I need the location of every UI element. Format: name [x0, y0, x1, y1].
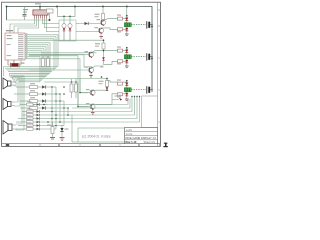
wire matrix vertical buses [52, 87, 72, 142]
frame right band tick marks [158, 9, 161, 11]
resistor matrix row 3 [30, 97, 35, 98]
capacitor C1 [23, 14, 27, 16]
LED DB3 red bottom [125, 93, 128, 96]
ground stage 2 output [125, 65, 129, 67]
transistor Q12 [95, 27, 104, 34]
diode matrix row 6 [37, 114, 40, 117]
crystal Q2 label [21, 63, 25, 64]
wire nested horizontals under IC going left [4, 67, 59, 82]
LED B in box [69, 16, 71, 23]
resistor matrix row 4 [30, 104, 35, 105]
frame inner bottom line [2, 143, 161, 145]
output column stage 3 [126, 81, 128, 99]
LED DB1 red bottom [125, 28, 128, 31]
wire C1 to rail [24, 7, 26, 21]
frame outer border [2, 2, 161, 146]
base wires stage 3 [78, 93, 90, 107]
crystal Q1 box [47, 9, 54, 13]
base wires stage 1 [76, 24, 102, 32]
wire row 1 left [16, 86, 30, 88]
resistor R12 [102, 43, 105, 49]
collector wires stage 2 [93, 48, 127, 68]
resistor R13 [106, 81, 109, 87]
LED A in box [63, 16, 65, 23]
series resistor RA3 [118, 82, 123, 85]
ground under stage2 chain [100, 66, 103, 68]
resistor matrix row 9 [27, 122, 32, 123]
node row 4 [63, 107, 65, 109]
series resistor RB1 [118, 28, 123, 31]
ground stage 1 output [125, 33, 129, 35]
IC1 name labels [6, 30, 13, 31]
node junction dots on VCC rail [6, 6, 153, 60]
IC1 bottom pins [7, 60, 9, 65]
diode matrix row 1 [42, 85, 45, 88]
diode matrix row 5 [37, 110, 40, 113]
LED DA3 red top [125, 83, 128, 86]
LED mid chain stage3 [106, 87, 109, 90]
diode base stage1 [85, 22, 88, 25]
green indicator G2 [124, 55, 131, 59]
extra matrix junction dots [51, 86, 81, 109]
IC1 pin numbers [26, 33, 28, 58]
frame bottom band tick marks [39, 144, 41, 147]
resistor matrix row 2 [30, 90, 35, 91]
node row 3 [59, 100, 61, 102]
LED DB2 red bottom [125, 60, 128, 63]
diode matrix row 10 [37, 128, 40, 131]
wire cluster top rail y16.4 [58, 7, 76, 17]
series resistor RB2 [118, 60, 123, 63]
resistor matrix row 6 [27, 112, 32, 113]
LED DA2 red top [125, 50, 128, 53]
wire staircase into box above title block [48, 97, 140, 143]
wire dashed green to cap stage 1 [131, 24, 146, 26]
svg-text:Sheet 1/1: Sheet 1/1 [144, 140, 156, 144]
svg-text:DICE GAME DISPLAY 1.0: DICE GAME DISPLAY 1.0 [126, 136, 157, 140]
wire row 2 left [14, 93, 30, 95]
diode matrix row 4 [42, 106, 45, 109]
node row 2 [55, 93, 57, 95]
IC IC1 [5, 33, 25, 60]
LED DA1 red top [125, 18, 128, 21]
transistor Q11 [97, 19, 106, 26]
wire bus to SV1 [39, 7, 41, 11]
IC1 pin name column [18, 34, 24, 59]
capacitor CP1 [146, 21, 148, 28]
note box [78, 128, 126, 142]
output column stage 1 [126, 7, 128, 35]
diode matrix row 3 [42, 99, 45, 102]
wire row 10 [16, 128, 27, 130]
wire row 8 [16, 121, 27, 123]
diode matrix row 9 [37, 124, 40, 127]
driver stage 3 feed wire [17, 79, 107, 81]
driver stage 1 feed wire [102, 7, 104, 14]
wire row 9 [18, 125, 27, 127]
resistor R30 vertical [47, 122, 55, 139]
resistor matrix row 4b [27, 101, 32, 102]
capacitor CP2 [146, 53, 148, 60]
wire row 4 right [45, 107, 68, 109]
svg-text:(c) 2004 D. Kotze: (c) 2004 D. Kotze [82, 135, 111, 139]
wire row 7 [18, 118, 27, 120]
diode D15 vertical [60, 125, 68, 137]
transistor QD under stage3 unit [119, 98, 122, 101]
diode matrix row 4b [37, 103, 40, 106]
wire pin fan from IC to right (staggered elbows down) [29, 35, 58, 82]
node row 1 [51, 86, 53, 88]
resistor matrix row 5 [27, 108, 32, 109]
ground under Q22 [89, 76, 93, 78]
transistor Q32 [86, 103, 95, 110]
transistor Q31 [86, 89, 95, 96]
IC1 right pin stubs [25, 35, 29, 59]
wire connector pins staircase to IC top [10, 19, 48, 34]
ground below D15 [60, 137, 65, 139]
wire LS3 leads [12, 125, 16, 130]
transistor Q21 [85, 51, 94, 58]
wire row 1 right [45, 86, 56, 88]
output column stage 2 [126, 48, 128, 66]
resistor matrix row 1 [30, 83, 35, 84]
connector SV1 [33, 10, 48, 15]
wire row 6 [22, 114, 27, 116]
resistor R11 [102, 14, 105, 20]
wire row 5 [22, 111, 27, 113]
wire y82 rail to R pair [44, 81, 76, 83]
box right of staircase [142, 96, 158, 128]
wire dashed green to cap stage 2 [131, 56, 146, 58]
frame bottom band section letter A [6, 144, 9, 146]
resistor matrix row 7 [27, 115, 32, 116]
speaker LS2 [3, 99, 11, 110]
wire dashed green to cap stage 3 [131, 89, 146, 91]
LED mid chain stage2 [102, 57, 105, 60]
diode matrix row 8 [37, 121, 40, 124]
green indicator G3 [124, 88, 131, 92]
ground under Q12 [100, 37, 104, 39]
wires into box left [44, 24, 59, 32]
wire LS2 leads [11, 102, 14, 106]
wire row 4b [20, 104, 27, 106]
optocoupler OK1 box [59, 20, 76, 41]
ground stage 3 output [125, 98, 129, 100]
crystal Q2 [12, 63, 19, 66]
collector wires stage 1 [103, 19, 127, 30]
wire row 4 left [20, 107, 30, 109]
speaker LS1 [3, 78, 11, 89]
resistor matrix row 8 [27, 119, 32, 120]
base wires stage 2 [29, 55, 89, 71]
frame inner right line [157, 2, 159, 146]
svg-text:Kotze: Kotze [126, 132, 133, 136]
driver stage 2 feed wire [29, 40, 104, 43]
capacitor C1 label [23, 9, 28, 10]
node dots on rail [63, 16, 65, 18]
series resistor RB3 [118, 93, 123, 96]
connector SV1 label [35, 3, 41, 4]
diode matrix row 7 [37, 117, 40, 120]
wire AVCC rail y20 [7, 19, 50, 21]
wire row 2 right [45, 93, 60, 95]
title block [125, 128, 158, 145]
wire VCC top rail [7, 7, 153, 93]
resistor R20 pair stage3 base [70, 79, 78, 98]
series resistor RA1 [118, 17, 123, 20]
series resistor RA2 [118, 49, 123, 52]
emitter tails [91, 33, 101, 112]
wire verticals to stage3 bases [78, 79, 80, 107]
connector SV1 pins [35, 15, 47, 19]
capacitor CP3 [146, 86, 148, 93]
wire long base nets to right stages [29, 53, 97, 107]
cursor I-beam mark bottom right [163, 143, 167, 148]
green indicator G1 [124, 23, 131, 27]
wire left verticals down to speaker rows [4, 67, 25, 131]
wire row 3 right [45, 100, 64, 102]
speaker LS3 [3, 121, 12, 135]
wire crystal leads [8, 60, 21, 65]
resistor matrix row 10 [27, 126, 32, 127]
resistor pair in fan area [42, 59, 45, 67]
diode matrix row 2 [42, 92, 45, 95]
transistor Q22 [85, 67, 94, 74]
svg-text:Rev 1.10: Rev 1.10 [126, 140, 137, 144]
ground under Q32 [91, 113, 95, 115]
collector wires stage 3 [94, 81, 127, 105]
wire row 3 left [20, 100, 30, 102]
wire LS1 leads [11, 82, 16, 86]
svg-text:LedN: LedN [126, 128, 132, 132]
